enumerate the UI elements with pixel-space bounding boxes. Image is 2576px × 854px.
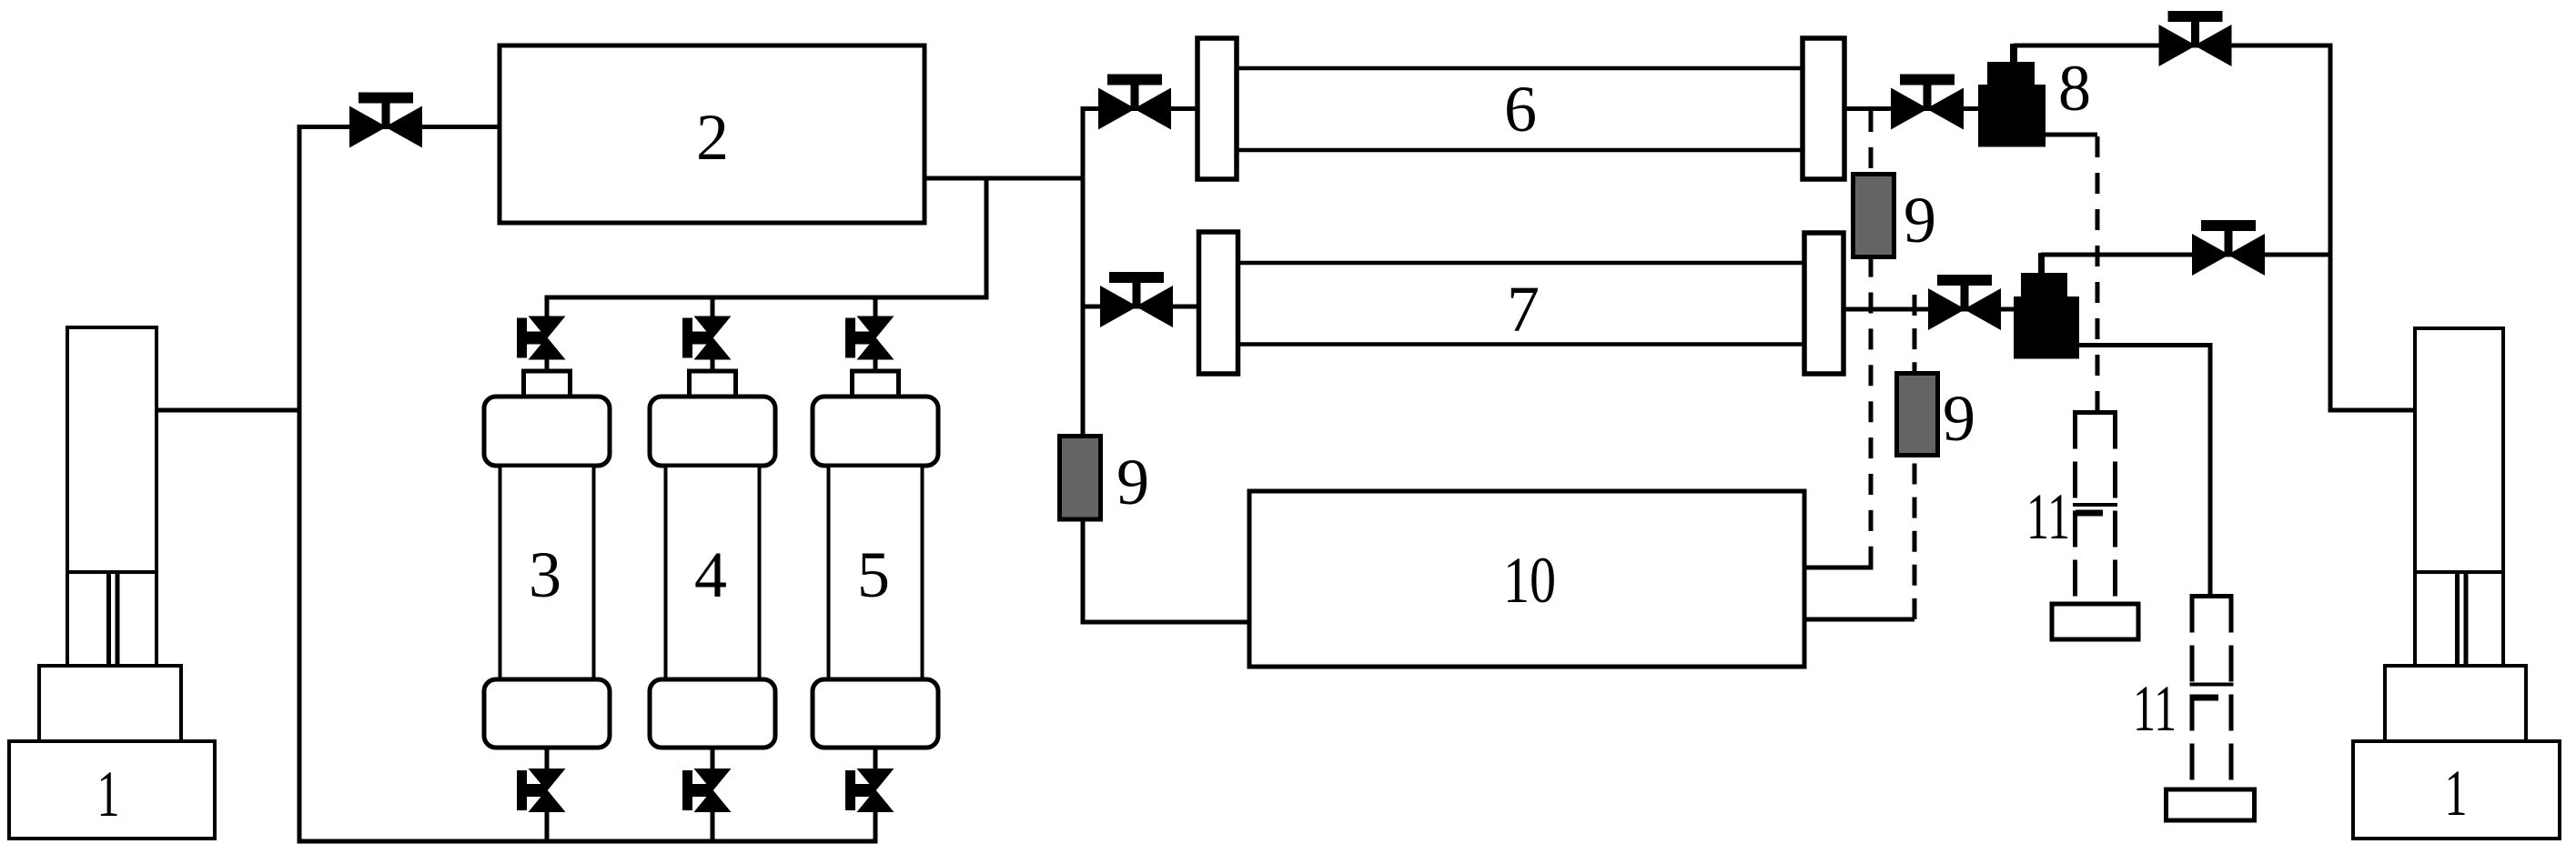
svg-text:9: 9 [1904,184,1936,256]
svg-text:1: 1 [2445,757,2468,829]
svg-text:2: 2 [696,101,729,174]
svg-text:6: 6 [1504,73,1537,146]
svg-text:4: 4 [694,538,727,611]
svg-text:11: 11 [2026,480,2070,553]
svg-text:1: 1 [97,758,120,830]
svg-text:9: 9 [1116,446,1149,518]
svg-text:8: 8 [2058,52,2091,125]
svg-text:11: 11 [2133,672,2177,745]
svg-text:3: 3 [529,538,561,611]
svg-text:7: 7 [1507,273,1540,346]
svg-text:5: 5 [857,538,890,611]
svg-text:10: 10 [1503,544,1556,617]
svg-text:9: 9 [1943,382,1975,455]
